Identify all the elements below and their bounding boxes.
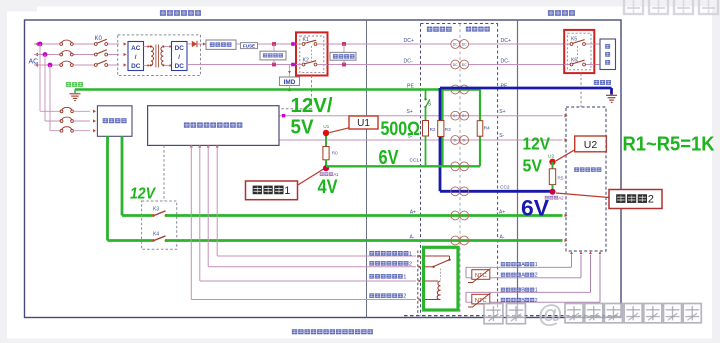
svg-text:S-: S-: [499, 133, 504, 139]
relay K1: [296, 37, 328, 45]
IMD insulation monitor: [280, 65, 300, 92]
wire thermistor A pin2: [466, 251, 582, 277]
label 电子锁位置反馈1: [369, 251, 412, 257]
node: AC tap 3: [48, 63, 53, 68]
svg-text:5V: 5V: [523, 156, 543, 176]
svg-text:S+: S+: [453, 114, 457, 118]
connector boundary: vehicle plug dashed column: [421, 24, 498, 316]
svg-text:1: 1: [403, 274, 406, 280]
annotation 6V (right, blue): [521, 196, 549, 221]
resistor R2: [423, 121, 436, 137]
wire AC phase 1: [34, 43, 119, 45]
annotation 5V (right): [523, 156, 543, 176]
label 温敏电阻A引脚2: [501, 273, 538, 279]
label 12V (aux): [130, 186, 156, 203]
bleed resistor 泄放电阻: [260, 44, 286, 65]
svg-text:S+: S+: [407, 109, 413, 115]
svg-text:500Ω: 500Ω: [381, 118, 421, 140]
svg-text:CC1: CC1: [410, 158, 420, 164]
AC/DC converter U-ACDC: [128, 42, 144, 71]
pins CC2 plug/socket: [451, 187, 469, 196]
wire lock feedback 2: [208, 145, 421, 268]
svg-text:U2: U2: [548, 153, 554, 159]
label PE left: [407, 84, 414, 90]
label 电子锁供电源2: [369, 293, 406, 299]
label 车辆控制器: [574, 167, 601, 171]
svg-text:R4: R4: [484, 125, 490, 131]
label A+ left: [410, 209, 416, 215]
wire tap2 to aux fuse row2: [45, 55, 61, 122]
label A- left: [410, 234, 415, 240]
wire aux 12V feed 2 (green): [108, 136, 153, 240]
fuse F3: [60, 61, 73, 66]
svg-text:CC2: CC2: [500, 185, 510, 191]
svg-text:U1: U1: [357, 118, 370, 129]
wire lock feedback 1: [217, 145, 421, 257]
battery pack 电池包: [600, 39, 616, 70]
resistor R5: [549, 169, 564, 185]
contactor box K5/K6 (red highlight): [564, 30, 594, 73]
relay K3: [152, 206, 168, 217]
wire CC2 blue vertical: [439, 88, 442, 191]
K1/K2 mechanical link dashed: [311, 46, 313, 62]
section divider cable|EV: [517, 20, 519, 318]
svg-text:DC: DC: [175, 63, 185, 70]
pins DC- plug/socket: [451, 60, 469, 69]
switch S (in plug): [424, 98, 431, 108]
charger ground symbol: [70, 90, 81, 101]
annotation 6V (left): [379, 146, 399, 169]
annotation 4V: [318, 176, 338, 198]
thermistor NTC-A: [468, 269, 491, 283]
relay K6: [564, 57, 594, 66]
label: vehicle plug 车辆插头: [427, 27, 452, 32]
label A+ right: [499, 209, 505, 215]
label PE right: [501, 84, 508, 90]
svg-text:A+: A+: [410, 209, 416, 215]
wire CC2 blue horizontal: [440, 190, 553, 193]
svg-text:DC: DC: [462, 42, 467, 46]
wire PE blue (vehicle side): [440, 88, 612, 95]
svg-text:DC-: DC-: [404, 59, 413, 65]
svg-text:12V/: 12V/: [291, 94, 333, 117]
node DC- a: [272, 63, 276, 67]
label 车身地 (body ground): [594, 80, 611, 85]
pins A+ plug/socket: [451, 211, 469, 220]
svg-text:DC-: DC-: [501, 59, 510, 65]
wire lock power 2: [191, 145, 421, 301]
callout box 检测点1: [246, 169, 324, 200]
svg-text:/: /: [178, 54, 180, 61]
label 电子锁位置反馈2: [369, 261, 412, 267]
relay K4: [152, 231, 168, 242]
callout box 检测点2: [556, 190, 662, 209]
svg-text:2: 2: [403, 294, 406, 300]
wire S switch to R2: [425, 107, 427, 121]
section title: on-board charger 某车载充电机: [160, 10, 201, 16]
svg-text:12V: 12V: [523, 134, 551, 154]
wire thermistor A pin1: [466, 251, 573, 267]
pins A- plug/socket: [451, 236, 469, 245]
diode D1: [187, 41, 197, 47]
svg-text:DC: DC: [175, 45, 185, 52]
svg-text:12V: 12V: [130, 186, 156, 203]
wire thermistor B pin2: [466, 251, 601, 302]
svg-text:2: 2: [409, 261, 412, 267]
svg-text:S-: S-: [463, 138, 466, 142]
svg-text:DC+: DC+: [501, 38, 512, 44]
relay K5: [564, 37, 594, 46]
svg-text:R3: R3: [445, 127, 451, 132]
wire AC phase 2: [34, 54, 119, 56]
svg-text:2: 2: [561, 195, 564, 200]
label S+ left: [407, 109, 413, 115]
label A- right: [500, 234, 505, 240]
node S+ at controller output: [282, 114, 285, 117]
svg-text:K4: K4: [153, 231, 159, 237]
node DC+ a: [272, 42, 276, 46]
wire tap1 to aux fuse row1: [40, 44, 61, 111]
svg-text:DC: DC: [462, 63, 467, 67]
pins PE plug/socket: [451, 85, 469, 94]
svg-text:DC: DC: [131, 63, 141, 70]
charger controller 某车载充电机控制器: [148, 106, 279, 146]
caption 直流充电控制导引电路原理图: [292, 329, 373, 334]
resistor R0: [323, 147, 338, 160]
svg-text:A-: A-: [410, 234, 415, 240]
wire U2 to R5 (green): [552, 162, 554, 169]
fuse F1: [60, 40, 73, 45]
svg-text:R1~R5=1K: R1~R5=1K: [623, 134, 716, 156]
label 温敏电阻B引脚2: [501, 298, 538, 304]
pins S- plug/socket: [451, 136, 469, 145]
dashed bottom edge of connector/EV boxes: [404, 315, 621, 317]
label S+ right: [499, 109, 505, 115]
svg-text:AC: AC: [29, 59, 39, 66]
node: AC tap 2: [43, 52, 48, 57]
thermistor NTC-B: [468, 293, 491, 307]
callout box U1: [330, 116, 379, 133]
wire lock power 1: [200, 145, 421, 282]
K3/K4 dashed enclosure: [142, 201, 177, 249]
node: AC tap 1: [38, 42, 43, 47]
label DC- (left of connector): [404, 59, 413, 65]
resistor R4: [477, 121, 490, 137]
fuse F6: [60, 127, 96, 133]
wire DC- bus: [187, 64, 600, 66]
annotation R1~R5=1K: [623, 134, 716, 156]
electronic lock box (green highlight): [424, 247, 459, 310]
wire S-: [279, 138, 568, 142]
relay K2: [296, 58, 328, 66]
callout box U2: [556, 136, 606, 161]
wire A+ (green): [166, 214, 567, 217]
lock position switch: [425, 256, 451, 268]
node DC- c: [342, 63, 346, 67]
svg-text:AC: AC: [131, 45, 141, 52]
svg-text:PE: PE: [407, 84, 414, 90]
wire A- (green): [166, 239, 567, 242]
control line vehicle-controller to K5/K6: [580, 73, 582, 107]
current measurement 电流测量: [206, 40, 236, 49]
svg-text:K3: K3: [153, 206, 159, 212]
label AC: [29, 59, 39, 66]
K5/K6 mechanical link dashed: [577, 46, 579, 62]
fuse F5: [60, 117, 96, 123]
svg-text:DC: DC: [453, 42, 458, 46]
node DC+ b: [291, 42, 295, 46]
label 接地端 (ground terminal): [66, 82, 83, 87]
svg-text:6V: 6V: [379, 146, 399, 169]
svg-text:DC+: DC+: [404, 38, 415, 44]
svg-text:A+: A+: [499, 209, 505, 215]
pins CC1 plug/socket: [451, 162, 469, 171]
svg-text:1: 1: [284, 185, 290, 197]
connector boundary right dashed: [497, 24, 499, 316]
vehicle body ground symbol: [606, 95, 617, 102]
svg-text:5V: 5V: [291, 115, 314, 138]
svg-text:2: 2: [535, 273, 538, 279]
svg-text:1: 1: [535, 288, 538, 294]
label 温敏电阻A引脚1: [501, 262, 538, 268]
svg-text:S+: S+: [499, 109, 505, 115]
fuse F4: [60, 107, 96, 113]
arrows into AC/DC: [124, 42, 127, 66]
svg-text:R0: R0: [332, 151, 338, 157]
DC/DC converter U-DCDC: [172, 42, 188, 71]
wire CC1 (green): [326, 165, 480, 167]
connector center divider (plug/socket mating line): [459, 24, 461, 316]
node U1 (test point): [323, 124, 330, 136]
label S- left: [408, 133, 413, 139]
label 电子锁供电源1: [369, 274, 406, 280]
node DC+ c: [342, 42, 346, 46]
wire PE green (charger side): [75, 88, 480, 91]
label DC+ (right of connector): [501, 38, 512, 44]
wire aux 12V feed 1 (green): [122, 136, 152, 215]
svg-text:4V: 4V: [318, 176, 338, 198]
label CC2: [500, 185, 510, 191]
wire AC phase 3: [34, 64, 119, 66]
wire R2 to CC1: [425, 136, 427, 166]
wire controller to U1 node (green): [325, 133, 327, 147]
node U2 (test point): [548, 153, 556, 165]
fuse F2: [60, 51, 73, 56]
voltage measurement 电压测量: [330, 44, 356, 65]
annotation 500Ω: [381, 118, 421, 140]
lock dashed column edge: [417, 251, 419, 316]
pins S+ plug/socket: [451, 111, 469, 120]
AC source terminals: [35, 42, 38, 67]
svg-text:A-: A-: [500, 234, 505, 240]
svg-text:U1: U1: [323, 124, 329, 130]
aux power supply 辅助电源: [97, 106, 132, 137]
wire S+: [279, 114, 568, 118]
wire thermistor B pin1: [466, 251, 592, 292]
controller lock-control drops (arrows into controller): [190, 145, 219, 148]
control line charger-controller to K1/K2: [279, 76, 312, 109]
label DC- (right of connector): [501, 59, 510, 65]
label DC+ (left of connector): [404, 38, 415, 44]
label: vehicle socket 车辆插座: [466, 27, 490, 32]
section title: electric vehicle 电动汽车: [548, 10, 575, 16]
svg-text:@: @: [538, 301, 562, 329]
label CC1: [410, 158, 420, 164]
node DC- b: [291, 63, 295, 67]
wire R0 to node A1 (green): [325, 160, 327, 167]
contactor box K1/K2 (red highlight): [296, 32, 328, 75]
svg-text:R2: R2: [430, 127, 436, 132]
lock mech link dashed: [440, 269, 442, 280]
resistor R3: [438, 121, 451, 137]
svg-text:6V: 6V: [521, 196, 549, 221]
vehicle controller 车辆控制器 dashed box: [566, 107, 606, 251]
annotation 12V (right): [523, 134, 551, 154]
wire: S branch from PE (green): [425, 90, 427, 99]
svg-text:1: 1: [535, 262, 538, 268]
svg-text:1: 1: [409, 251, 412, 257]
wire DC+ bus: [197, 42, 600, 45]
wire: green loop left edge: [441, 90, 443, 167]
svg-text:S-: S-: [454, 138, 457, 142]
wire tap3 to aux fuse row3: [50, 65, 61, 131]
wire R5 to node A2 (green): [552, 185, 554, 190]
node 检测点A1: [320, 165, 339, 177]
fuse FUSE box: [241, 43, 258, 49]
svg-text:S+: S+: [462, 114, 466, 118]
section divider charger|cable: [366, 20, 368, 318]
converter dashed enclosure: [118, 35, 201, 76]
svg-text:FUSE: FUSE: [243, 43, 255, 48]
svg-text:U2: U2: [584, 139, 598, 151]
pins DC+ plug/socket: [451, 40, 469, 49]
svg-text:DC: DC: [453, 63, 458, 67]
svg-text:2: 2: [648, 193, 654, 205]
svg-text:/: /: [135, 54, 137, 61]
svg-text:R5: R5: [557, 175, 563, 181]
svg-text:IMD: IMD: [284, 79, 296, 86]
label S- right: [499, 133, 504, 139]
label 温敏电阻B引脚1: [501, 288, 538, 294]
lock solenoid coil: [425, 281, 441, 300]
control dashed to K3/K4: [163, 145, 165, 201]
wire: green loop right edge: [479, 90, 481, 167]
annotation 12V/ 5V (charger control supply): [291, 94, 333, 139]
transformer T1: [144, 45, 173, 68]
node 检测点A2: [545, 189, 564, 201]
switch K0 (3-pole): [94, 36, 107, 66]
